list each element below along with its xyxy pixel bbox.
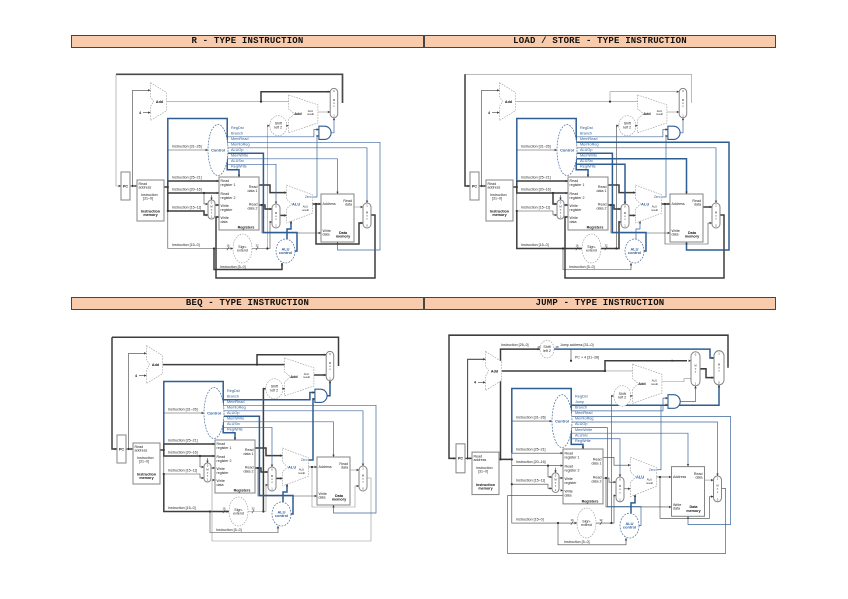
wire Branch control signal to AND gate (228, 130, 319, 137)
wire Read data 2 to ALUSrc mux input 0 (603, 478, 616, 482)
svg-text:[31–0]: [31–0] (492, 197, 502, 201)
svg-text:Add: Add (491, 369, 499, 373)
wire ALU result to data memory address (662, 203, 671, 205)
svg-text:Instruction [15–11]: Instruction [15–11] (168, 469, 197, 473)
wire ALUSrc mux output to ALU input 2 (624, 488, 631, 490)
svg-text:Instruction [25–0]: Instruction [25–0] (501, 343, 529, 347)
wire MemtoReg control signal to mux select (572, 422, 718, 476)
wire RegDst mux output to Write register (564, 204, 568, 206)
svg-text:register 1: register 1 (221, 183, 236, 187)
wire PC+4 from Add (167, 101, 261, 103)
wire ALU control to ALU operation input (631, 495, 635, 514)
wire sign-extend output to ALUSrc mux input 1 (601, 222, 621, 249)
wire Read data 1 to ALU input 1 (603, 457, 631, 465)
svg-text:Instruction [15–0]: Instruction [15–0] (168, 506, 196, 510)
wire data memory read data to MemtoReg mux input 1 (350, 469, 359, 471)
header Load/Store-type (424, 35, 776, 48)
registers file (219, 177, 259, 230)
wire data memory read data to MemtoReg mux input 1 (705, 479, 714, 481)
svg-text:Zero: Zero (654, 195, 661, 199)
instruction memory (472, 452, 499, 494)
svg-text:Instruction [25–21]: Instruction [25–21] (521, 176, 551, 180)
svg-text:data 1: data 1 (244, 452, 254, 456)
wire ALUOp control signal to ALU control (577, 153, 647, 251)
svg-text:memory: memory (143, 213, 158, 217)
wire ALU Zero flag to AND gate (313, 136, 319, 197)
svg-text:Add: Add (290, 375, 298, 379)
wire PC+4 from Add (516, 101, 610, 103)
ALUSrc mux (621, 204, 629, 228)
svg-text:[31–0]: [31–0] (139, 460, 149, 464)
svg-text:Jump address [31–0]: Jump address [31–0] (560, 343, 594, 347)
wire AND gate output PCSrc to mux select (327, 381, 330, 396)
svg-text:Instruction [20–16]: Instruction [20–16] (516, 460, 546, 464)
svg-text:data 1: data 1 (592, 461, 602, 465)
wire Instruction[5-0] funct field to ALU control (214, 249, 282, 270)
wire Instruction[15-0] to sign-extend (512, 484, 577, 523)
svg-text:memory: memory (139, 476, 154, 480)
svg-text:MemtoReg: MemtoReg (227, 406, 246, 410)
wire Instruction[20-16] to RegDst mux input 0 (548, 466, 552, 477)
svg-text:left 2: left 2 (623, 125, 631, 129)
svg-text:memory: memory (332, 498, 347, 502)
svg-text:Control: Control (211, 147, 225, 152)
wire PCSrc mux output along top (fetch loop) (112, 337, 339, 366)
wire branch Add result to PCSrc mux input 1 (318, 111, 330, 113)
wire ALU result to data memory address (309, 466, 318, 468)
wire ALU control to ALU operation input (283, 484, 287, 502)
wire Read data 1 to ALU input 1 (608, 185, 636, 193)
svg-text:MemWrite: MemWrite (580, 154, 597, 158)
svg-text:Instruction [31–26]: Instruction [31–26] (521, 144, 551, 148)
wire ALUOp control signal to ALU control (572, 428, 642, 526)
svg-text:RegWrite: RegWrite (227, 428, 243, 432)
wire MemRead control signal to data memory (577, 142, 730, 250)
wire Instruction[20-16] to Read register 2 (164, 450, 215, 456)
svg-text:Instruction [5–0]: Instruction [5–0] (216, 528, 242, 532)
wire sign-extend output to ALUSrc mux input 1 (252, 222, 272, 249)
wire sign-extend output up to Shift left 2 (616, 126, 618, 249)
svg-text:left 2: left 2 (270, 388, 278, 392)
MemtoReg mux (712, 203, 720, 228)
svg-text:data: data (672, 233, 679, 237)
RegDst mux (552, 473, 559, 493)
wire ALUSrc mux output to ALU input 2 (629, 214, 636, 216)
wire branch Add result to branch mux input 1 (662, 379, 691, 382)
wire MemtoReg mux output write-back to Write data (508, 488, 726, 553)
wire sign-extend output to ALUSrc mux input 1 (248, 485, 268, 512)
registers file (568, 177, 608, 230)
svg-text:ALUSrc: ALUSrc (580, 159, 593, 163)
control unit (552, 395, 572, 448)
adder PC+4 (500, 83, 516, 121)
svg-text:PC: PC (458, 457, 463, 461)
ALU control unit (625, 239, 644, 263)
wire PC+4 to PCSrc mux input 0 (605, 361, 687, 371)
svg-text:Address: Address (673, 475, 686, 479)
svg-text:16: 16 (222, 507, 226, 511)
wire Instruction[15-11] to RegDst mux input 1 (164, 456, 204, 478)
svg-text:ALUOp: ALUOp (575, 422, 587, 426)
svg-text:MemtoReg: MemtoReg (231, 143, 250, 147)
svg-text:Add: Add (152, 363, 160, 367)
RegDst mux (557, 200, 564, 219)
PCSrc mux (326, 351, 334, 380)
svg-text:data 1: data 1 (248, 189, 258, 193)
svg-text:result: result (656, 112, 663, 116)
svg-text:extend: extend (233, 511, 244, 515)
svg-text:result: result (646, 481, 653, 485)
ALUSrc mux (268, 467, 276, 491)
wire Instruction[15-0] to sign-extend (164, 474, 229, 512)
wire MemtoReg control signal to mux select (577, 148, 717, 203)
svg-text:Instruction [15–11]: Instruction [15–11] (172, 206, 201, 210)
adder PC+4 (147, 346, 163, 384)
wire Instruction[20-16] to Read register 2 (517, 187, 568, 193)
svg-text:Control: Control (555, 418, 569, 423)
wire Instruction[31-26] to Control (164, 412, 204, 414)
shift left 2 (branch) (270, 116, 287, 136)
wire instruction bus / RegWrite control path around Control (517, 119, 588, 182)
wire MemtoReg mux output write-back to Write data (216, 215, 375, 278)
svg-text:Branch: Branch (227, 395, 239, 399)
wire sign-extend output to ALUSrc mux input 1 (596, 496, 616, 523)
svg-text:result: result (298, 471, 305, 475)
AND gate branch (668, 395, 680, 409)
wire Instruction[15-11] to RegDst mux input 1 (517, 193, 557, 215)
wire Instruction[15-11] to RegDst mux input 1 (168, 193, 208, 215)
svg-text:data: data (570, 220, 577, 224)
svg-text:register 2: register 2 (221, 196, 236, 200)
wire ALU Zero flag to AND gate (662, 136, 668, 197)
svg-text:data 2: data 2 (592, 480, 602, 484)
svg-text:register 2: register 2 (217, 459, 232, 463)
MemtoReg mux (359, 466, 367, 491)
wire Instruction[31-26] to Control (512, 420, 552, 422)
svg-text:Instruction [31–26]: Instruction [31–26] (172, 144, 202, 148)
wire MemtoReg mux output write-back to Write data (212, 478, 371, 541)
wire Branch control signal to AND gate (572, 398, 669, 411)
wire Instruction[31-26] to Control (168, 149, 208, 151)
svg-text:memory: memory (686, 509, 701, 513)
svg-text:Instruction [15–0]: Instruction [15–0] (521, 243, 549, 247)
ALU control unit (620, 513, 639, 538)
wire RegDst control signal to mux select (207, 458, 209, 463)
wire AND gate output PCSrc to mux select (680, 118, 683, 133)
wire Instruction[15-11] to RegDst mux input 1 (512, 466, 552, 489)
wire ALU result to data memory address (313, 203, 322, 205)
wire jump mux output to PC (fetch loop) (449, 335, 728, 458)
wire instruction bus / RegWrite control path around Control (168, 119, 239, 182)
svg-text:PC: PC (123, 184, 128, 188)
wire Instruction[25-21] to Read register 1 (517, 181, 568, 187)
svg-text:ALU: ALU (288, 464, 296, 469)
wire Read data 1 to ALU input 1 (255, 448, 283, 456)
wire RegDst control signal to mux select (211, 195, 213, 200)
svg-text:PC: PC (472, 184, 477, 188)
svg-text:Instruction [15–0]: Instruction [15–0] (516, 517, 544, 521)
wire Branch control signal to AND gate (577, 130, 668, 137)
shift left 2 (branch) (266, 379, 283, 399)
svg-text:32: 32 (604, 244, 608, 248)
svg-text:Instruction [5–0]: Instruction [5–0] (564, 540, 590, 544)
wire MemtoReg control signal to mux select (228, 148, 368, 203)
svg-text:data 2: data 2 (248, 206, 258, 210)
svg-text:left 2: left 2 (618, 396, 626, 400)
svg-text:address: address (139, 186, 152, 190)
svg-text:control: control (275, 513, 288, 518)
MemtoReg mux (363, 203, 371, 228)
svg-text:ALUSrc: ALUSrc (231, 159, 244, 163)
svg-text:memory: memory (478, 486, 493, 490)
shift left 2 (branch) (614, 386, 631, 407)
wire Instruction[5-0] funct field to ALU control (563, 249, 631, 270)
ALU main (287, 185, 313, 223)
svg-text:RegDst: RegDst (580, 126, 594, 130)
wire constant 4 to Add (478, 381, 486, 383)
svg-text:4: 4 (139, 111, 141, 115)
svg-text:16: 16 (226, 244, 230, 248)
wire Read data 2 to ALUSrc mux input 0 (255, 468, 268, 472)
wire Instruction[25-0] to jump Shift left 2 (501, 349, 541, 459)
svg-text:ALU: ALU (292, 201, 300, 206)
wire ALU result bypass to MemtoReg mux input 0 (660, 477, 714, 518)
jump mux (714, 351, 724, 385)
svg-text:Address: Address (672, 202, 685, 206)
svg-text:left 2: left 2 (274, 125, 282, 129)
AND gate branch (319, 126, 331, 139)
wire PC to instruction memory read address (479, 185, 486, 187)
svg-text:ALU: ALU (641, 201, 649, 206)
wire ALU Zero flag to AND gate (657, 405, 669, 470)
svg-text:Instruction [25–21]: Instruction [25–21] (172, 176, 202, 180)
branch adder (638, 95, 667, 133)
wire PC+4 from Add (502, 370, 605, 372)
wire PC to Add (PC+4) (133, 90, 151, 186)
branch adder (633, 364, 662, 403)
wire Read data 2 to data memory write data (611, 205, 670, 233)
svg-text:4: 4 (474, 381, 477, 385)
svg-text:28: 28 (556, 345, 560, 349)
svg-text:Instruction [31–26]: Instruction [31–26] (516, 415, 546, 419)
PCSrc mux (679, 88, 687, 117)
svg-text:data: data (323, 233, 330, 237)
svg-text:Registers: Registers (234, 489, 251, 493)
wire Shift left 2 to branch Add bottom input (283, 388, 285, 390)
wire Instruction[5-0] funct field to ALU control (210, 512, 278, 533)
wire Jump control signal to jump mux select (572, 385, 720, 405)
svg-text:register: register (570, 208, 583, 212)
instruction memory (486, 180, 513, 221)
svg-text:result: result (651, 382, 658, 386)
svg-text:Registers: Registers (582, 499, 599, 503)
wire branch Add result to PCSrc mux input 1 (314, 374, 326, 376)
svg-text:data: data (221, 220, 228, 224)
control unit (204, 388, 224, 439)
data memory (670, 194, 703, 242)
svg-text:MemWrite: MemWrite (575, 428, 592, 432)
wire Jump address[31-0] to jump mux input 1 (554, 349, 714, 358)
svg-text:register: register (565, 481, 578, 485)
wire MemtoReg mux output write-back to Write data (565, 215, 724, 278)
wire instruction memory output bus (160, 449, 164, 451)
ALUSrc mux (272, 204, 280, 228)
branch adder (289, 95, 318, 133)
wire ALUSrc control signal to mux select (577, 164, 626, 204)
svg-text:Instruction [20–16]: Instruction [20–16] (172, 188, 202, 192)
svg-text:data: data (345, 203, 352, 207)
svg-text:Branch: Branch (231, 132, 243, 136)
svg-text:MemWrite: MemWrite (227, 417, 244, 421)
wire Instruction[25-21] to Read register 1 (164, 444, 215, 450)
wire Instruction[5-0] funct field to ALU control (558, 523, 626, 545)
svg-text:register 1: register 1 (570, 183, 585, 187)
svg-text:Add: Add (294, 112, 302, 116)
svg-text:RegWrite: RegWrite (580, 165, 596, 169)
svg-text:data: data (217, 483, 224, 487)
adder PC+4 (151, 83, 167, 121)
svg-text:left 2: left 2 (543, 349, 551, 353)
sign extend unit (229, 497, 248, 526)
shift left 2 (branch) (619, 116, 636, 136)
ALU main (631, 457, 657, 496)
wire AND gate output PCSrc to mux select (331, 118, 334, 133)
wire ALU result to data memory address (657, 476, 672, 478)
wire data memory read data to MemtoReg mux input 1 (703, 206, 712, 208)
wire AND gate output to branch mux select (680, 386, 695, 402)
svg-text:4: 4 (135, 374, 137, 378)
adder PC+4 (486, 351, 502, 390)
svg-text:register 2: register 2 (570, 196, 585, 200)
svg-text:Instruction [20–16]: Instruction [20–16] (521, 188, 551, 192)
svg-text:extend: extend (237, 248, 248, 252)
svg-text:extend: extend (581, 523, 592, 527)
svg-text:Instruction [20–16]: Instruction [20–16] (168, 451, 198, 455)
wire ALU result bypass to MemtoReg mux input 0 (312, 467, 359, 507)
wire Read data 2 to ALUSrc mux input 0 (608, 205, 621, 209)
BEQ datapath (106, 325, 416, 570)
wire PC+4 to branch Add top input (605, 370, 633, 372)
wire RegDst mux output to Write register (559, 477, 563, 479)
header BEQ-type (71, 297, 424, 310)
svg-text:ALUSrc: ALUSrc (575, 433, 588, 437)
wire PC+4 to PCSrc mux input 0 (261, 92, 330, 102)
wire PC+4 from Add (163, 364, 257, 366)
data memory (317, 457, 350, 505)
wire PC+4 to PCSrc mux input 0 (257, 355, 326, 365)
svg-text:Control: Control (207, 410, 221, 415)
svg-text:RegDst: RegDst (231, 126, 245, 130)
svg-text:RegWrite: RegWrite (575, 439, 591, 443)
svg-text:MemtoReg: MemtoReg (575, 417, 594, 421)
svg-text:16: 16 (575, 244, 579, 248)
wire sign-extend output up to Shift left 2 (267, 126, 269, 249)
wire ALUOp control signal to ALU control (228, 153, 298, 251)
PCSrc mux (330, 88, 338, 117)
wire Read data 2 to ALUSrc mux input 0 (259, 205, 272, 209)
wire ALU control to ALU operation input (287, 221, 291, 239)
wire Instruction[31-26] to Control (517, 149, 557, 151)
wire branch mux output to jump mux input 0 (700, 369, 714, 378)
svg-text:ALUOp: ALUOp (227, 411, 239, 415)
branch mux (691, 352, 700, 386)
svg-text:result: result (307, 112, 314, 116)
svg-text:Add: Add (638, 382, 646, 386)
svg-text:extend: extend (586, 248, 597, 252)
svg-text:Instruction [15–11]: Instruction [15–11] (516, 479, 545, 483)
svg-text:data 1: data 1 (597, 189, 607, 193)
wire ALU result bypass to MemtoReg mux input 0 (665, 204, 712, 244)
svg-text:Branch: Branch (580, 132, 592, 136)
wire MemtoReg control signal to mux select (224, 411, 364, 466)
PC register (117, 435, 126, 463)
svg-text:Add: Add (505, 100, 513, 104)
wire RegDst control signal to mux select (560, 195, 562, 200)
ALU main (636, 185, 662, 223)
wire PC to instruction memory read address (465, 457, 472, 459)
wire Branch control signal to AND gate (224, 393, 315, 400)
svg-text:32: 32 (255, 244, 259, 248)
wire constant 4 to Add (492, 112, 500, 114)
svg-text:Instruction [15–0]: Instruction [15–0] (172, 243, 200, 247)
wire PC to Add (PC+4) (129, 353, 147, 449)
instruction memory (137, 180, 164, 221)
R-type datapath (110, 62, 420, 307)
wire fetch loop down to PC (116, 74, 121, 186)
PC register (456, 444, 465, 473)
MemtoReg mux (714, 476, 722, 502)
svg-text:Zero: Zero (301, 458, 308, 462)
wire PC to instruction memory read address (130, 185, 137, 187)
svg-text:memory: memory (685, 235, 700, 239)
wire ALUSrc control signal to mux select (224, 427, 273, 467)
wire RegDst mux output to Write register (211, 467, 215, 469)
wire ALUOp control signal to ALU control (224, 416, 294, 514)
instruction memory (133, 443, 160, 484)
wire MemWrite control signal to data memory (228, 159, 338, 194)
svg-text:Control: Control (560, 147, 574, 152)
svg-text:32: 32 (251, 507, 255, 511)
svg-text:RegWrite: RegWrite (231, 165, 247, 169)
wire Instruction[15-0] to sign-extend (168, 211, 233, 249)
wire MemWrite control signal to data memory (572, 433, 689, 466)
svg-text:address: address (135, 449, 148, 453)
svg-text:Add: Add (156, 100, 164, 104)
svg-text:address: address (488, 186, 501, 190)
data memory (321, 194, 354, 242)
RegDst mux (204, 463, 211, 482)
svg-text:data: data (673, 507, 681, 511)
svg-text:Zero: Zero (305, 195, 312, 199)
svg-text:ALUSrc: ALUSrc (227, 422, 240, 426)
shift left 2 (jump) (540, 340, 554, 358)
wire PC+4 to branch Add top input (257, 364, 285, 366)
wire MemWrite control signal to data memory (577, 159, 687, 194)
wire Read data 2 to data memory write data (606, 478, 672, 507)
wire Instruction[15-0] to sign-extend (517, 211, 582, 249)
wire Read data 2 to data memory write data (262, 205, 321, 233)
svg-text:data: data (341, 466, 348, 470)
svg-text:result: result (303, 375, 310, 379)
wire ALU Zero flag to AND gate (309, 399, 315, 460)
svg-text:data 2: data 2 (244, 469, 254, 473)
svg-text:ALU: ALU (636, 474, 644, 479)
svg-text:32: 32 (599, 518, 603, 522)
data memory (672, 467, 705, 517)
wire Instruction[25-21] to Read register 1 (512, 453, 563, 459)
svg-text:Instruction [25–21]: Instruction [25–21] (516, 448, 546, 452)
svg-text:control: control (628, 250, 641, 255)
